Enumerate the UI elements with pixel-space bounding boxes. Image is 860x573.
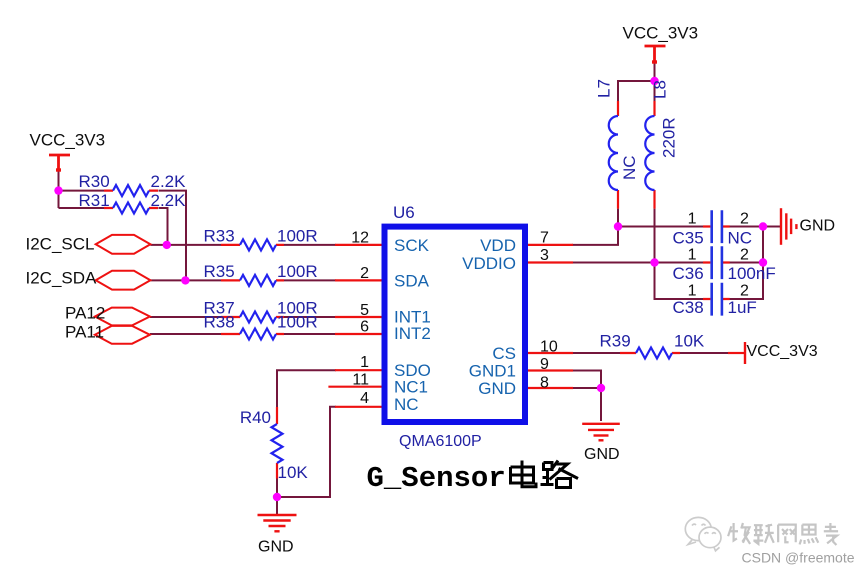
svg-text:2: 2 — [740, 246, 749, 263]
svg-text:100R: 100R — [277, 313, 318, 332]
svg-text:VCC_3V3: VCC_3V3 — [747, 343, 818, 360]
pin 8 GND stub — [528, 387, 573, 389]
wire GND pin8 — [572, 388, 601, 421]
junction VCC top — [650, 77, 658, 85]
svg-text:NC: NC — [394, 395, 419, 414]
svg-text:GND: GND — [478, 379, 516, 398]
wire C36 right — [730, 262, 764, 264]
svg-text:100R: 100R — [277, 226, 318, 245]
svg-text:GND1: GND1 — [469, 362, 516, 381]
junction L8/VDDIO/C36 — [650, 258, 658, 266]
resistor R37 — [204, 298, 318, 322]
power VCC_3V3 top-right — [645, 46, 666, 63]
svg-text:100nF: 100nF — [728, 264, 776, 283]
svg-text:R38: R38 — [204, 313, 235, 332]
svg-text:L7: L7 — [595, 79, 614, 98]
svg-text:R33: R33 — [204, 226, 235, 245]
svg-text:I2C_SDA: I2C_SDA — [26, 269, 98, 288]
svg-text:CSDN @freemote: CSDN @freemote — [742, 550, 855, 566]
wire R31 left — [59, 207, 105, 209]
wire top to L7 — [618, 81, 655, 101]
IC U6 QMA6100P body — [385, 227, 526, 422]
junction SDA — [181, 276, 189, 284]
svg-text:VDDIO: VDDIO — [462, 254, 516, 273]
wire PA12 to R37 — [150, 316, 221, 318]
capacitor C36 — [673, 246, 776, 283]
svg-text:GND: GND — [584, 446, 620, 463]
resistor R31 — [79, 191, 187, 214]
svg-text:GND: GND — [258, 538, 294, 555]
wire C35 to GND — [730, 226, 782, 228]
svg-text:10: 10 — [540, 339, 558, 356]
title hanzi 电路 — [511, 461, 579, 488]
svg-text:10K: 10K — [674, 332, 705, 351]
pin 9 GND1 stub — [528, 369, 573, 371]
wire R35 to pin2 — [284, 279, 336, 281]
ground below pin8 — [582, 424, 620, 441]
wire VDDIO row — [572, 262, 703, 264]
svg-text:QMA6100P: QMA6100P — [399, 433, 482, 450]
pin numbers left — [351, 230, 369, 408]
svg-text:R31: R31 — [79, 191, 110, 210]
pin 12 SCK stub — [335, 244, 382, 246]
svg-text:R30: R30 — [79, 172, 110, 191]
svg-text:2: 2 — [740, 211, 749, 228]
svg-text:I2C_SCL: I2C_SCL — [26, 235, 95, 254]
port I2C_SDA — [96, 271, 151, 290]
svg-text:NC: NC — [620, 155, 639, 180]
watermark logo (chat bubbles) — [685, 517, 721, 550]
junction VCC/R30/R31 — [54, 186, 62, 194]
resistor R40 (vertical) — [240, 407, 309, 482]
svg-text:1: 1 — [688, 246, 697, 263]
svg-text:12: 12 — [351, 230, 369, 247]
svg-text:2: 2 — [360, 265, 369, 282]
svg-text:G_Sensor: G_Sensor — [367, 462, 506, 495]
svg-text:5: 5 — [360, 302, 369, 319]
svg-text:SCK: SCK — [394, 236, 430, 255]
resistor R30 — [79, 172, 187, 196]
svg-text:L8: L8 — [651, 80, 670, 99]
svg-text:1: 1 — [360, 354, 369, 371]
wire I2C_SDA row — [150, 279, 221, 281]
inductor L8 — [645, 80, 678, 209]
capacitor C35 — [673, 210, 753, 247]
wire NC pin4 loop — [277, 407, 336, 497]
svg-text:GND: GND — [800, 218, 836, 235]
watermark hanzi 物联网思考 — [728, 523, 838, 545]
wire VCC to R30/R31 vertical — [58, 172, 60, 209]
resistor R38 — [204, 313, 318, 340]
pin 11 NC1 stub — [328, 386, 381, 388]
wire CS to R39 — [572, 352, 621, 354]
svg-text:100R: 100R — [277, 262, 318, 281]
svg-text:10K: 10K — [278, 463, 309, 482]
svg-text:SDA: SDA — [394, 271, 430, 290]
junction L7/VDD/C35 — [614, 222, 622, 230]
svg-text:INT2: INT2 — [394, 324, 431, 343]
wire R31 right to SCL column — [159, 208, 168, 245]
port I2C_SCL — [96, 235, 151, 254]
svg-text:220R: 220R — [660, 117, 679, 158]
wire PA11 to R38 — [150, 333, 221, 335]
wire R30 right to SDA column — [159, 191, 187, 281]
svg-text:8: 8 — [540, 375, 549, 392]
wire SDO to R40 — [277, 370, 336, 407]
wire R38 to pin6 — [284, 333, 336, 335]
svg-text:9: 9 — [540, 356, 549, 373]
svg-text:VCC_3V3: VCC_3V3 — [30, 131, 106, 150]
svg-text:R39: R39 — [600, 332, 631, 351]
pin 10 CS stub — [528, 352, 573, 354]
svg-text:VDD: VDD — [480, 236, 516, 255]
wire R40 bottom to GND — [276, 479, 278, 515]
svg-text:6: 6 — [360, 319, 369, 336]
svg-text:VCC_3V3: VCC_3V3 — [623, 24, 699, 43]
pin 1 SDO stub — [335, 369, 382, 371]
junction pin8 GND — [597, 384, 605, 392]
wire VDD to L7 junction — [572, 227, 618, 245]
pin names right — [462, 236, 516, 398]
ground (rotated) right of C35 — [781, 208, 796, 245]
svg-text:C38: C38 — [673, 298, 704, 317]
svg-text:NC1: NC1 — [394, 377, 428, 396]
svg-text:7: 7 — [540, 230, 549, 247]
junction R40/NC/GND — [273, 493, 281, 501]
port PA12 — [95, 308, 150, 326]
pin 3 VDDIO stub — [528, 261, 573, 263]
svg-text:R35: R35 — [204, 262, 235, 281]
power port VCC_3V3 right of R39 — [744, 342, 746, 364]
resistor R35 — [204, 262, 318, 286]
PIN-STUBS — [328, 245, 573, 407]
svg-text:CS: CS — [492, 344, 516, 363]
wire R30 left — [59, 190, 105, 192]
pin 6 INT2 stub — [335, 333, 382, 335]
wire R39 to VCC port — [680, 352, 729, 354]
pin 7 VDD stub — [528, 244, 573, 246]
power VCC_3V3 top-left — [49, 155, 70, 172]
svg-text:2.2K: 2.2K — [151, 191, 187, 210]
wire VCC top stem — [654, 64, 656, 102]
svg-text:R40: R40 — [240, 408, 271, 427]
pin numbers right — [540, 230, 558, 392]
resistor R33 — [204, 226, 318, 250]
svg-text:1uF: 1uF — [728, 298, 757, 317]
pin 5 INT1 stub — [335, 316, 382, 318]
wire I2C_SCL row — [150, 244, 221, 246]
port PA11 — [95, 326, 150, 344]
pin names left — [394, 236, 431, 414]
pin 2 SDA stub — [335, 279, 382, 281]
junction C35 right — [759, 222, 767, 230]
wire C38 right and vertical bus — [730, 227, 764, 300]
wire GND1 pin9 — [572, 371, 601, 389]
resistor R39 — [600, 332, 705, 359]
wire R33 to pin12 — [284, 244, 336, 246]
svg-text:3: 3 — [540, 247, 549, 264]
svg-text:1: 1 — [688, 211, 697, 228]
WIRES-RIGHT — [572, 64, 781, 422]
svg-text:PA12: PA12 — [65, 304, 105, 323]
wire C35 row — [618, 226, 703, 228]
svg-text:C36: C36 — [673, 264, 704, 283]
pin 4 NC stub — [335, 406, 382, 408]
capacitor C38 — [673, 283, 757, 317]
svg-text:NC: NC — [728, 228, 753, 247]
ground below R40 — [258, 515, 297, 531]
wire R37 to pin5 — [284, 316, 336, 318]
wire C38 branch — [655, 263, 704, 300]
svg-text:11: 11 — [352, 372, 369, 389]
svg-text:2.2K: 2.2K — [151, 172, 187, 191]
svg-text:C35: C35 — [673, 228, 704, 247]
svg-text:4: 4 — [360, 390, 369, 407]
junction SCL — [163, 241, 171, 249]
WIRES-LEFT — [59, 172, 337, 515]
inductor L7 — [595, 79, 640, 209]
wire L8 bottom to VDDIO row — [654, 209, 656, 263]
wire L7 bottom — [617, 209, 619, 227]
junction C36 right — [759, 258, 767, 266]
svg-text:PA11: PA11 — [65, 322, 104, 341]
svg-text:U6: U6 — [393, 203, 415, 222]
